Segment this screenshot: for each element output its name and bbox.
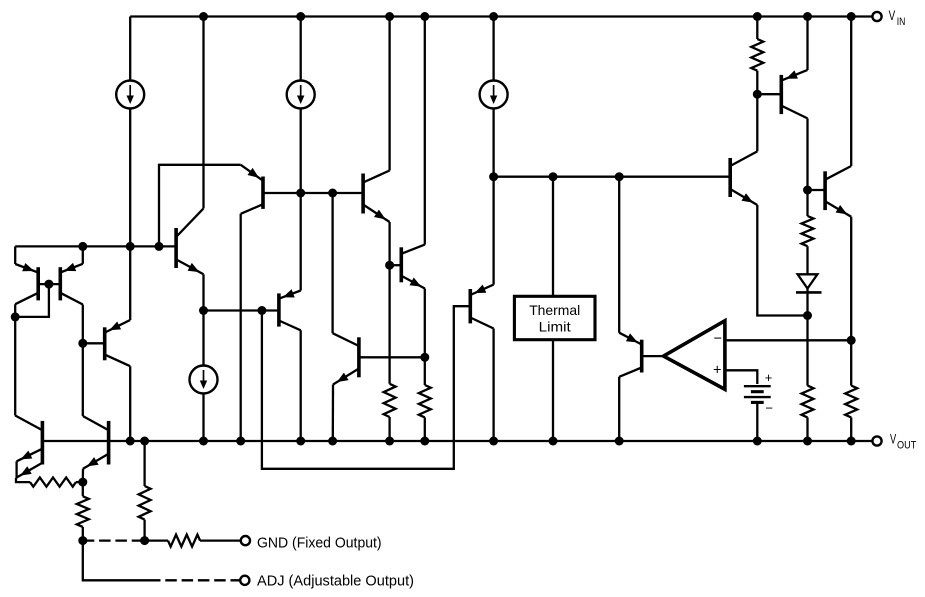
junction: inverting input / R10 node [847,336,856,345]
terminal ADJ [240,576,249,585]
junction: Q6 collector on top rail [199,12,208,21]
junction: Q1 collector/base tie (node A) [11,312,20,321]
wire: Q16 base [808,189,826,191]
wire: I2 column from top rail [300,17,302,81]
svg-text:+: + [765,370,773,385]
junction: I2 / Q8 emitter on base rail [296,189,305,198]
wire: Q16 collector up to top rail [850,17,852,167]
svg-text:OUT: OUT [897,440,916,452]
wire: R3 to GND node [143,520,145,541]
junction: R10 on output rail [847,437,856,446]
wire: Q1 collector drop [14,304,16,317]
wire: Q8 collector down to output rail [300,330,302,441]
wire: I1 column from top rail [129,17,131,81]
junction: Q15 collector / Q16 base / R8 [803,186,812,195]
resistor R6 [419,385,431,417]
junction: I3 / Q12 emitter on drive rail [489,172,498,181]
wire: VOUT output bottom rail [42,440,872,442]
wire: U1 inverting input [725,339,851,341]
resistor R5 [384,384,396,417]
battery B1 long plate 2 [744,396,771,398]
current source I1 [116,81,144,109]
junction: I1 on bias rail [126,242,135,251]
label VOUT [890,432,916,452]
wire: R6 top lead [424,357,426,385]
transistor Q6 (NPN) [176,208,203,274]
battery B1 (bandgap reference), plus plate [744,385,771,387]
resistor R7 [751,39,763,71]
transistor Q10 (NPN) [363,171,390,223]
junction: node C (R1/Q4 emitter/R2) [78,478,87,487]
wire: Q15 emitter up to top rail [806,17,808,70]
junction: Q16 collector on top rail [847,12,856,21]
wire: Q8 emitter up to base rail [300,193,302,291]
wire: node D down to I4 [202,311,204,366]
junction: I2 on top rail [296,12,305,21]
wire: I1 to bias rail [129,109,131,247]
transistor Q1 (PNP, left of mirror) [15,263,38,304]
wire: rail tap down to R3 [143,441,145,486]
block: Thermal Limit [514,296,595,339]
transistor Q4 (NPN) [83,416,109,469]
junction: Q11 collector on top rail [420,12,429,21]
wire: Q2 collector drop [82,305,84,344]
wire: R6 bottom lead [424,417,426,441]
label ADJ (Adjustable Output) [257,573,414,589]
junction: R7 on top rail [753,12,762,21]
junction: Q13 emitter tap on drive rail [615,172,624,181]
wire: R7 to Q15 base node [756,71,758,95]
wire: Q14 collector up to Q15 base node [756,94,758,151]
junction: R5 on output rail [385,437,394,446]
wire: Q7 emitter loop [159,165,241,247]
wire: Q11 collector up to top rail [424,17,426,245]
current source I2 [287,81,315,109]
resistor R8 [802,216,814,246]
wire: Q6 collector up to top rail [202,17,204,209]
junction: node D (Q6 emitter/I4) [199,306,208,315]
wire: I2 to Q7/Q10 base rail [300,109,302,194]
wire: Q4 emitter drop [82,469,84,482]
wire: Q3 emitter1 drop [15,461,17,478]
svg-text:−: − [714,331,722,347]
label B1 plus [765,370,773,385]
junction: Q7 collector on output rail [236,437,245,446]
wire: R5 bottom lead [388,417,390,441]
label B1 minus [765,401,773,416]
wire: node B down to Q4 collector [82,343,84,416]
resistor R4 (GND pin resistor) [168,535,200,547]
wire: U1 output to Q13 base [642,355,664,357]
wire: B1 to output rail [756,402,758,441]
battery B1 short plate 2 (minus) [751,401,764,404]
label GND (Fixed Output) [257,536,382,552]
resistor R9 [802,386,814,418]
wire: drive rail down to thermal limit [552,177,554,297]
junction: D1 / Q14 emitter / R9 [803,311,812,320]
wire: U1 non-inverting input [725,370,757,384]
junction: Q5 collector node pair [140,437,149,446]
junction: node D to feedback loop [257,306,266,315]
wire: Q12 collector down to output rail [492,329,494,442]
wire: Q9 collector up to base rail [331,193,333,333]
wire: Q16 emitter down to inverting node [850,217,852,341]
wire: R4 to GND terminal [200,539,241,541]
junction: mirror bases [44,280,53,289]
junction: Q8 collector on output rail [296,437,305,446]
wire: R8 to D1 [806,246,808,274]
wire: mirror base to Q1 collector node [15,284,49,317]
junction: R3 / GND link [140,536,149,545]
wire: Q5 collector down to output rail [129,366,131,441]
wire: R1 to node C [76,481,83,483]
wire: Q13 collector down to output rail [618,377,620,441]
wire: node A down to Q3 collector [14,317,16,416]
wire: Q15 collector down to Q16 base node [806,118,808,190]
wire: Q10 collector up to top rail [388,17,390,171]
wire: Q11 emitter down to R6 node [424,289,426,358]
resistor R10 [845,386,857,418]
diode D1 [796,274,822,292]
transistor Q12 (PNP) [470,285,493,329]
transistor Q2 (PNP, right of mirror) [60,263,83,305]
resistor R2 [77,496,89,527]
terminal GND [241,536,250,545]
wire: R10 bottom lead [850,417,852,441]
junction: Q9 collector on base rail [328,189,337,198]
junction: R6 on output rail [420,437,429,446]
wire: R8 top lead [806,190,808,216]
label VIN [889,8,906,28]
wire: node B to Q5 base [83,342,105,344]
op-amp U1 (error amplifier) [664,321,725,390]
transistor Q9 (NPN) [333,333,359,384]
wire: R9 bottom lead [806,417,808,441]
wire: loop from node D to Q12 base [262,306,470,469]
junction: Q9 emitter on output rail [328,437,337,446]
junction: I3 on top rail [489,12,498,21]
transistor Q11 (NPN) [401,245,425,289]
junction: Q7 emitter loop on bias rail [155,242,164,251]
svg-text:GND (Fixed Output): GND (Fixed Output) [257,536,382,552]
wire: Q2 emitter drop [82,246,84,263]
wire: Q9 emitter down to output rail [332,385,335,442]
junction: I4 on output rail [199,437,208,446]
wire: drive rail to Q14 base [494,176,731,178]
terminal VOUT [872,436,881,445]
wire: dashed ADJ link [149,579,240,581]
wire: R3 node to R4 [145,539,168,541]
svg-text:V: V [889,8,896,23]
wire: Q10 emitter down to Q11 base node [388,222,390,265]
svg-text:ADJ (Adjustable Output): ADJ (Adjustable Output) [257,573,414,589]
wire: Q1-Q2 common bases [38,283,60,285]
svg-text:+: + [713,363,721,379]
transistor Q16 (NPN, pass) [825,166,851,217]
wire: Q7 base rail to Q10 base [263,192,363,194]
wire: Q11 base [390,264,402,266]
svg-text:IN: IN [897,16,906,28]
junction: Q10 collector on top rail [385,12,394,21]
wire: thermal limit down to output rail [552,340,554,441]
wire: Q14 emitter down and right to diode node [757,205,807,316]
junction: ADJ node [78,536,87,545]
battery B1 short plate 1 [751,390,764,393]
resistor R1 (Q3 emitter degeneration) [30,478,76,487]
wire: VIN top supply rail [130,15,872,17]
current source I4 [190,366,218,394]
junction: Q5 collector on output rail [126,437,135,446]
transistor Q8 (PNP) [279,289,301,330]
wire: Q13 emitter from drive rail [618,177,620,333]
terminal VIN [872,12,881,21]
transistor Q7 (PNP) [241,165,263,214]
transistor Q15 (PNP) [781,70,807,119]
transistor Q14 (NPN, driver) [730,151,757,205]
wire: R7 top lead [756,17,758,40]
wire: Q12 emitter up to drive rail [492,177,494,285]
junction: Q13 collector on output rail [615,437,624,446]
junction: Q2 collector / Q5 base (node B) [78,339,87,348]
wire: Q6 emitter down to node D [202,274,204,310]
junction: Q11 emitter / R6 / Q9 base [420,353,429,362]
wire: Q1 emitter drop [14,246,16,264]
transistor Q5 (PNP) [105,320,131,366]
wire: node C down to R2 [82,482,84,496]
junction: B1 on output rail [753,437,762,446]
wire: Q5 emitter up to bias rail [129,246,131,320]
wire: Q7 collector down to output rail [240,214,242,441]
wire: R5 top lead [388,265,390,384]
wire: I3 to drive rail [492,109,494,177]
wire: node D to Q8 base [204,309,279,311]
junction: thermal limit tap on drive rail [549,172,558,181]
wire: bias rail (mirror emitters / Q6 base) [15,245,176,247]
transistor Q13 (PNP) [619,333,642,377]
junction: Q10 emitter / Q11 base / R5 [385,261,394,270]
junction: thermal limit on output rail [549,437,558,446]
wire: R9 top lead [806,316,808,386]
junction: Q15 emitter on top rail [803,12,812,21]
junction: R7 / Q15 base / Q14 collector [753,90,762,99]
svg-text:V: V [890,432,896,447]
wire: D1 to emitter node [806,289,808,316]
wire: ADJ node down and right [83,541,149,581]
wire: R10 top lead [850,340,852,385]
wire: I3 column from top rail [492,17,494,81]
current source I3 [480,81,508,109]
wire: I4 to output rail [202,394,204,442]
wire: Q3 emitters to R1 [16,478,30,482]
resistor R3 [139,486,151,520]
junction: Q12 collector on output rail [489,437,498,446]
junction: R9 on output rail [803,437,812,446]
svg-text:−: − [765,401,773,416]
wire: R2 to ADJ node [82,527,84,541]
svg-text:Limit: Limit [539,319,571,335]
svg-text:Thermal: Thermal [529,302,580,318]
wire: Q9 base to R6 node [359,356,425,358]
wire: dashed link ADJ node to R3 node [83,539,145,541]
transistor Q3 (NPN, double emitter) [15,416,42,478]
junction: Q2 emitter on bias rail [78,242,87,251]
wire: Q15 base [757,93,781,95]
